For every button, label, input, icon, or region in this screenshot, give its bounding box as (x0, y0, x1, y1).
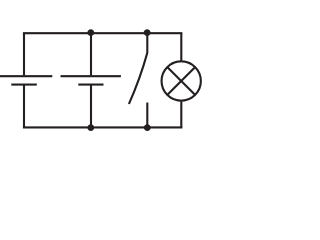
battery cell 2: short (negative) plate (78, 84, 103, 86)
wire: middle branch upper vertical (90, 33, 92, 75)
wire: bottom rail (23, 126, 183, 128)
wire: right branch upper vertical (180, 33, 182, 62)
junction: bottom node at switch branch (144, 124, 151, 131)
wire: left branch lower vertical (23, 85, 25, 128)
lamp: circle outline (162, 61, 201, 100)
switch: open blade (lever) (129, 53, 147, 104)
battery cell 2: long (positive) plate (61, 75, 121, 77)
battery cell 1: long (positive) plate (0, 75, 52, 77)
wire: top rail (23, 32, 183, 34)
switch: lower lead (146, 103, 148, 128)
junction: top node at switch branch (144, 29, 151, 36)
switch: upper lead (146, 33, 148, 53)
lamp: X diagonal (top-left to bottom-right) (167, 67, 195, 95)
wire: middle branch lower vertical (90, 85, 92, 128)
wire: left branch upper vertical (23, 33, 25, 75)
junction: bottom node at middle branch (87, 124, 94, 131)
wire: right branch lower vertical (180, 100, 182, 127)
battery cell 1: short (negative) plate (11, 84, 37, 86)
junction: top node at middle branch (87, 29, 94, 36)
lamp: X diagonal (top-right to bottom-left) (167, 67, 195, 95)
